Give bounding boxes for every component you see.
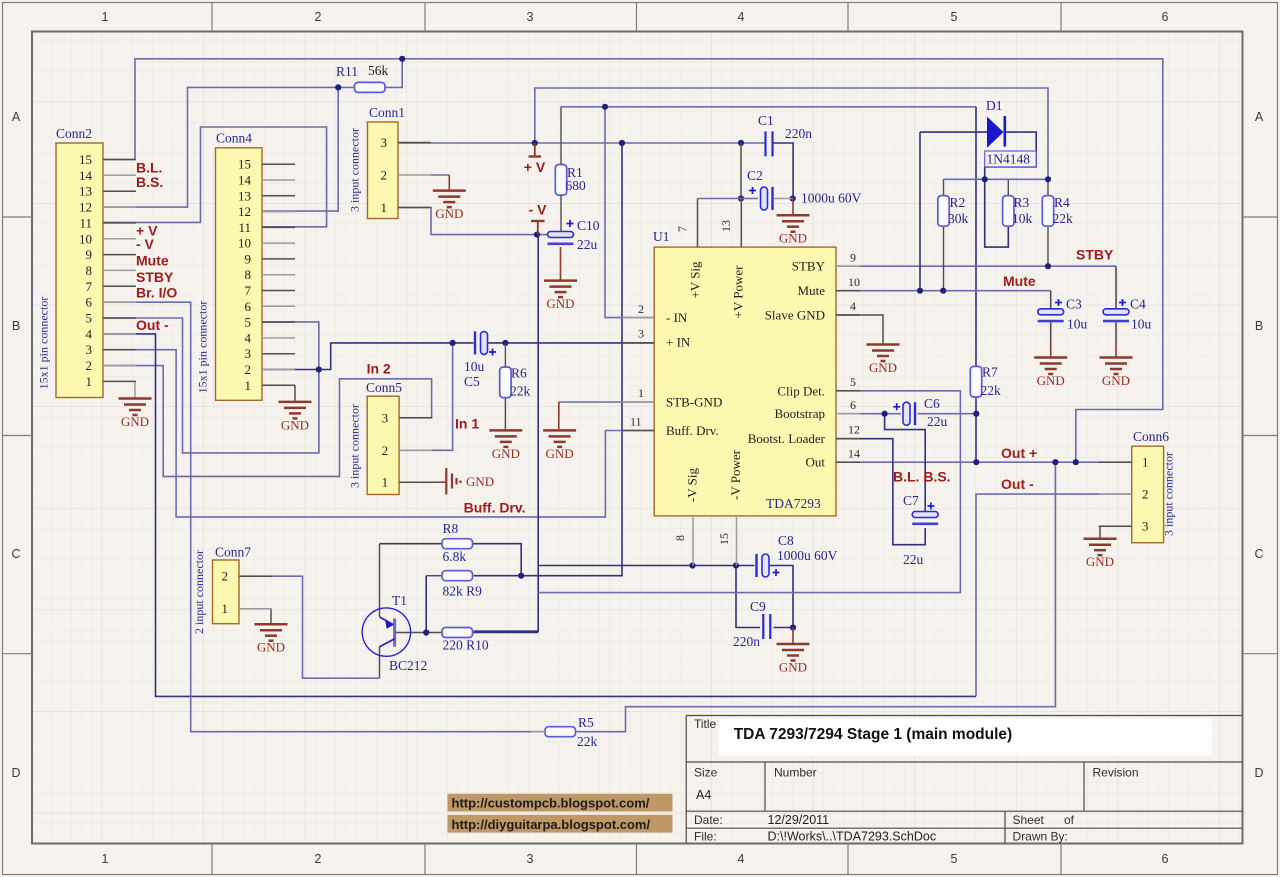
junction D1 anode Mute: [917, 288, 923, 294]
wire Conn1.1 to -V port: [398, 208, 548, 235]
svg-text:Conn6: Conn6: [1133, 429, 1169, 444]
svg-text:C10: C10: [577, 218, 600, 233]
resistor R10: [442, 628, 473, 638]
connector Conn4: [196, 131, 296, 401]
svg-text:3: 3: [86, 342, 93, 357]
svg-text:14: 14: [848, 447, 860, 461]
svg-text:Conn5: Conn5: [366, 380, 402, 395]
svg-text:680: 680: [566, 178, 587, 193]
wire C2 right: [774, 198, 793, 200]
svg-text:3: 3: [1142, 519, 1149, 534]
svg-text:Size: Size: [694, 766, 718, 780]
wire Bootstrap to C7 top: [885, 414, 926, 512]
pin R1 top: [560, 107, 562, 165]
svg-text:TDA7293: TDA7293: [766, 496, 821, 511]
wire to D1 anode: [920, 131, 987, 133]
ground Slave GND: [867, 345, 900, 362]
op-amp U1 TDA7293: [653, 229, 836, 516]
capacitor C1: [766, 131, 773, 156]
capacitor C8: [757, 554, 770, 577]
svg-text:3 input connector: 3 input connector: [348, 128, 362, 212]
svg-text:R3: R3: [1014, 195, 1030, 210]
pin R1 bottom: [560, 195, 562, 231]
connector Conn6: [1099, 429, 1176, 543]
svg-text:GND: GND: [779, 231, 807, 246]
svg-text:R4: R4: [1054, 195, 1070, 210]
svg-text:-V Power: -V Power: [728, 449, 743, 500]
svg-text:C5: C5: [464, 374, 480, 389]
svg-text:C4: C4: [1130, 297, 1146, 312]
svg-text:Conn2: Conn2: [56, 126, 92, 141]
svg-text:6: 6: [86, 295, 93, 310]
svg-text:GND: GND: [121, 414, 149, 429]
svg-text:2: 2: [638, 302, 644, 316]
svg-text:R7: R7: [982, 365, 998, 380]
svg-text:BC212: BC212: [389, 658, 427, 673]
wire to R8 left: [380, 543, 443, 545]
pin U1.11: [622, 430, 654, 432]
svg-text:1000u 60V: 1000u 60V: [801, 191, 862, 206]
svg-text:13: 13: [719, 220, 733, 232]
pin R6 top: [504, 343, 506, 367]
svg-text:2: 2: [315, 10, 322, 24]
svg-text:3: 3: [527, 852, 534, 866]
svg-text:2: 2: [381, 168, 388, 183]
svg-text:3 input connector: 3 input connector: [1162, 452, 1176, 536]
svg-text:R2: R2: [950, 195, 966, 210]
pin U1.6: [836, 413, 860, 415]
svg-text:GND: GND: [1037, 373, 1065, 388]
svg-text:12: 12: [848, 423, 860, 437]
svg-text:A: A: [1255, 110, 1264, 124]
junction R11 left: [335, 84, 341, 90]
svg-text:5: 5: [245, 315, 252, 330]
wire Conn4.2 riser: [318, 370, 320, 453]
wire Conn1.2 to ground: [448, 175, 450, 190]
resistor R3: [1003, 196, 1014, 227]
svg-text:C2: C2: [747, 168, 763, 183]
svg-text:R11: R11: [336, 64, 358, 79]
ground Conn6: [1084, 539, 1117, 556]
svg-text:STBY: STBY: [792, 259, 826, 274]
junction R4 bottom STBY: [1045, 263, 1051, 269]
junction C6 left: [882, 411, 888, 417]
wire C10 to ground: [560, 247, 562, 280]
wire Conn1.2 extension: [431, 174, 449, 176]
svg-text:of: of: [1064, 813, 1075, 827]
wire Conn2.6 to R5: [103, 302, 545, 732]
svg-text:1: 1: [222, 601, 229, 616]
svg-text:U1: U1: [653, 229, 670, 244]
svg-text:3: 3: [245, 346, 252, 361]
pin R7 top: [975, 366, 977, 396]
svg-text:C: C: [11, 547, 20, 561]
svg-text:Number: Number: [774, 766, 817, 780]
svg-text:1000u 60V: 1000u 60V: [777, 548, 838, 563]
pin R4 bottom: [1047, 227, 1049, 267]
junction R8-R9: [518, 573, 524, 579]
svg-text:15: 15: [238, 157, 251, 172]
url labels: [448, 794, 673, 833]
wire C2 to ground: [792, 199, 794, 215]
svg-text:Out +: Out +: [1001, 445, 1037, 461]
junction R5 riser Out+: [1052, 459, 1058, 465]
svg-text:Conn1: Conn1: [369, 105, 405, 120]
svg-text:6: 6: [245, 299, 252, 314]
svg-text:GND: GND: [492, 446, 520, 461]
svg-text:12: 12: [238, 204, 251, 219]
pin U1.7: [697, 199, 699, 248]
svg-text:22k: 22k: [981, 383, 1002, 398]
svg-text:1: 1: [245, 378, 252, 393]
resistor R2: [938, 196, 949, 227]
svg-text:7: 7: [245, 283, 252, 298]
svg-text:B: B: [1255, 319, 1263, 333]
wire C4 to ground: [1115, 345, 1117, 357]
svg-text:GND: GND: [1086, 554, 1114, 569]
wire R9 left: [426, 575, 442, 577]
wire R9 to base: [425, 576, 427, 633]
svg-text:2: 2: [382, 443, 389, 458]
svg-text:Mute: Mute: [798, 283, 826, 298]
wire Clip Det. bus: [538, 391, 960, 593]
svg-text:14: 14: [238, 173, 252, 188]
svg-text:B: B: [12, 319, 20, 333]
wire riser to R7: [975, 107, 977, 367]
svg-text:Slave GND: Slave GND: [765, 308, 825, 323]
wire Out- to Conn6.2: [976, 494, 1132, 696]
svg-text:10u: 10u: [1131, 317, 1152, 332]
pin C4 bottom: [1115, 323, 1117, 346]
junction B.L. Out+: [1073, 459, 1079, 465]
wire C9 right: [774, 627, 794, 629]
svg-text:GND: GND: [546, 446, 574, 461]
svg-text:C: C: [1254, 547, 1263, 561]
svg-text:C9: C9: [750, 599, 766, 614]
wire T1 collector down: [379, 647, 381, 679]
svg-text:11: 11: [238, 220, 251, 235]
wire In 2 Conn2.2 to Conn5.3: [103, 366, 432, 477]
svg-text:GND: GND: [281, 417, 309, 432]
wire T1 base to R10: [396, 632, 442, 634]
svg-text:12/29/2011: 12/29/2011: [768, 813, 830, 827]
svg-text:1N4148: 1N4148: [987, 152, 1031, 167]
resistor R9: [442, 571, 473, 581]
wire R2-R4 top: [944, 178, 1049, 180]
svg-text:GND: GND: [869, 360, 897, 375]
pin U1.1: [622, 401, 654, 403]
wire C9 to ground: [792, 628, 794, 644]
svg-text:220n: 220n: [733, 634, 760, 649]
wire R8 right: [473, 544, 522, 576]
wire Conn2.1 to ground: [134, 381, 136, 397]
capacitor C10: [548, 232, 574, 244]
wire C8 to C9 junction: [769, 566, 794, 628]
wire D1 anode riser: [919, 132, 921, 291]
svg-text:Clip Det.: Clip Det.: [777, 383, 825, 398]
junction U1.13: [738, 195, 744, 201]
svg-text:B.L. B.S.: B.L. B.S.: [893, 469, 951, 485]
wire -IN to U1.2: [605, 107, 654, 318]
ground Conn1: [433, 191, 466, 208]
wire STBY to C4: [1115, 266, 1117, 309]
svg-text:15: 15: [79, 152, 92, 167]
wire R6 to ground: [504, 398, 506, 430]
svg-text:+ IN: + IN: [666, 334, 691, 349]
svg-text:56k: 56k: [368, 63, 389, 78]
svg-text:R5: R5: [578, 715, 594, 730]
ground C1 C2: [777, 215, 810, 232]
pin R2 bottom: [943, 227, 945, 291]
svg-text:- V: - V: [136, 236, 155, 252]
transistor T1 BC212: [362, 593, 427, 673]
svg-text:5: 5: [951, 10, 958, 24]
wire to R3 bottom: [985, 179, 1009, 247]
svg-text:220 R10: 220 R10: [443, 638, 489, 653]
svg-text:Mute: Mute: [136, 253, 169, 269]
svg-text:4: 4: [245, 330, 252, 345]
svg-text:GND: GND: [779, 660, 807, 675]
svg-text:Sheet: Sheet: [1013, 813, 1045, 827]
junction C5 left: [450, 340, 456, 346]
pin U1.12: [836, 438, 860, 440]
junction R6 top: [502, 340, 508, 346]
svg-text:10u: 10u: [1067, 317, 1088, 332]
svg-text:D1: D1: [986, 98, 1003, 113]
junction D1 loop: [982, 176, 988, 182]
wire R10 right: [473, 632, 539, 634]
wire U1.7 to C2: [698, 198, 759, 200]
pin U1.10: [836, 290, 860, 292]
svg-text:Br. I/O: Br. I/O: [136, 285, 177, 301]
svg-text:14: 14: [79, 168, 93, 183]
wire B.L. net Conn2.15 to Out+: [103, 59, 1163, 462]
svg-text:2 input connector: 2 input connector: [192, 550, 206, 634]
net labels: [136, 160, 1114, 516]
svg-text:1: 1: [381, 200, 388, 215]
junction +V: [532, 140, 538, 146]
svg-text:3: 3: [382, 410, 389, 425]
junction C2 right: [790, 195, 796, 201]
svg-text:1: 1: [638, 386, 644, 400]
svg-text:11: 11: [630, 415, 642, 429]
resistor R6: [500, 367, 511, 398]
svg-text:D: D: [1254, 766, 1263, 780]
svg-text:-V Sig: -V Sig: [685, 467, 700, 502]
svg-text:C1: C1: [758, 113, 774, 128]
svg-text:D: D: [11, 766, 20, 780]
junction -V port: [534, 232, 540, 238]
ground C3: [1034, 358, 1067, 375]
connector Conn1: [348, 105, 432, 219]
power port -V: [529, 202, 548, 235]
svg-text:2: 2: [1142, 487, 1149, 502]
wire +V riser to R4: [535, 88, 1048, 179]
resistor R8: [442, 539, 473, 549]
svg-text:9: 9: [86, 247, 93, 262]
svg-text:Bootstrap: Bootstrap: [774, 406, 825, 421]
junction C1 left: [738, 140, 744, 146]
junction C9 GND: [790, 624, 796, 630]
svg-text:A: A: [12, 110, 21, 124]
svg-text:6: 6: [1162, 852, 1169, 866]
pin U1.5: [836, 390, 860, 392]
svg-text:11: 11: [79, 215, 92, 230]
svg-text:TDA 7293/7294 Stage 1 (main mo: TDA 7293/7294 Stage 1 (main module): [734, 726, 1013, 743]
svg-text:GND: GND: [546, 296, 574, 311]
pin U1.8: [692, 516, 694, 566]
wire R11 to Conn4.12: [262, 87, 338, 211]
wire Mute to C3: [1050, 291, 1052, 309]
svg-text:Bootst. Loader: Bootst. Loader: [748, 431, 826, 446]
svg-text:+V Sig: +V Sig: [688, 261, 703, 299]
wire C1-C2 link: [740, 143, 742, 199]
wire T1 emitter riser: [379, 544, 381, 617]
capacitor C6: [903, 402, 915, 425]
wire U1.1 STB-GND: [559, 401, 654, 403]
resistor R7: [970, 366, 981, 397]
wire Conn4.1 to ground: [294, 385, 296, 401]
capacitor C2: [761, 187, 773, 210]
svg-text:1: 1: [102, 852, 109, 866]
junction U1.15 -V: [733, 562, 739, 568]
wire STB-GND stub: [558, 402, 560, 429]
pin U1.3: [622, 342, 654, 344]
pin R3 top: [1007, 180, 1009, 196]
junction Conn4.2 Out-: [316, 366, 322, 372]
junction feedback: [619, 140, 625, 146]
svg-text:6: 6: [1162, 10, 1169, 24]
pin U1.2: [622, 317, 654, 319]
svg-text:+V Power: +V Power: [731, 265, 746, 319]
svg-text:10: 10: [79, 231, 92, 246]
svg-text:File:: File:: [694, 830, 717, 844]
junction -IN: [602, 104, 608, 110]
svg-text:3 input connector: 3 input connector: [348, 404, 362, 488]
pin R5 left: [531, 731, 545, 733]
svg-text:9: 9: [850, 251, 856, 265]
svg-text:GND: GND: [466, 474, 494, 489]
svg-text:30k: 30k: [948, 211, 969, 226]
wire In 1 to Conn5.2: [399, 343, 453, 450]
wire R5 to Out+ riser: [576, 462, 1055, 732]
diode D1 1N4148: [985, 98, 1036, 167]
wire Slave GND U1.4: [836, 315, 883, 344]
pin C3 bottom: [1050, 323, 1052, 346]
wire feedback to R9: [474, 143, 622, 576]
svg-text:C3: C3: [1066, 297, 1082, 312]
ground Conn7: [255, 624, 288, 641]
capacitor C3: [1038, 309, 1064, 321]
svg-text:4: 4: [86, 326, 93, 341]
junction R4 top: [1045, 176, 1051, 182]
svg-text:R8: R8: [443, 521, 459, 536]
svg-text:5: 5: [850, 375, 856, 389]
ground Conn4: [279, 402, 312, 419]
wire R1 top feedback horizontal: [561, 106, 976, 108]
wire Conn4.2 to C5: [262, 343, 474, 370]
svg-text:4: 4: [738, 10, 745, 24]
wire STBY U1.9: [836, 265, 1116, 267]
svg-text:R6: R6: [511, 366, 527, 381]
svg-text:In 2: In 2: [367, 361, 391, 377]
svg-text:3: 3: [381, 135, 388, 150]
svg-text:1: 1: [1142, 455, 1149, 470]
pin U1.15: [736, 516, 738, 566]
svg-text:- IN: - IN: [666, 310, 688, 325]
svg-text:+ V: + V: [524, 159, 546, 175]
svg-text:In 1: In 1: [455, 416, 479, 432]
ground C4: [1100, 358, 1133, 375]
pin numbers U1: [630, 220, 860, 545]
svg-text:3: 3: [527, 10, 534, 24]
svg-text:Buff. Drv.: Buff. Drv.: [666, 423, 719, 438]
svg-text:8: 8: [86, 263, 93, 278]
wire R7 bottom to Out+: [975, 397, 977, 463]
ground R6: [489, 430, 522, 447]
svg-text:82k R9: 82k R9: [443, 584, 483, 599]
svg-text:Mute: Mute: [1003, 273, 1036, 289]
wire -V rail to C8: [538, 565, 754, 567]
capacitor C4: [1103, 309, 1129, 321]
svg-text:A4: A4: [696, 788, 711, 802]
svg-text:7: 7: [675, 226, 689, 232]
wire T1 collector to Conn7.2: [239, 576, 380, 678]
svg-text:http://diyguitarpa.blogspot.co: http://diyguitarpa.blogspot.com/: [452, 817, 651, 832]
capacitor C5: [475, 331, 488, 354]
svg-text:10u: 10u: [464, 359, 485, 374]
wire Conn2.12 to R11: [103, 87, 355, 207]
resistor R5: [545, 727, 576, 737]
wire Out- Conn2.4 run: [103, 334, 976, 697]
svg-text:C8: C8: [778, 533, 794, 548]
junction R7 Out+: [973, 459, 979, 465]
wire U1.12 to C7 bottom: [836, 439, 925, 545]
svg-text:1: 1: [102, 10, 109, 24]
svg-text:http://custompcb.blogspot.com/: http://custompcb.blogspot.com/: [452, 796, 650, 811]
svg-text:3: 3: [638, 327, 644, 341]
svg-text:Date:: Date:: [694, 813, 723, 827]
wire C1 right loop: [773, 143, 794, 199]
svg-text:15: 15: [717, 533, 731, 545]
svg-text:10: 10: [238, 236, 251, 251]
svg-text:GND: GND: [1102, 373, 1130, 388]
junction R7 bootstrap: [973, 411, 979, 417]
pin R2 top: [943, 179, 945, 195]
connector Conn5: [348, 380, 433, 495]
wire Bootstrap U1.6 to C6: [836, 413, 901, 415]
capacitor C9: [763, 614, 770, 639]
svg-text:15x1 pin connector: 15x1 pin connector: [37, 297, 51, 390]
junction U1.8 -V: [689, 562, 695, 568]
junction R9-R10: [423, 629, 429, 635]
wire Out- Conn2.5 to Conn4.5: [103, 318, 319, 453]
svg-text:Conn7: Conn7: [215, 545, 251, 560]
pin U1.9: [836, 265, 860, 267]
power port +V: [524, 143, 546, 175]
svg-text:- V: - V: [529, 202, 548, 218]
svg-text:7: 7: [86, 279, 93, 294]
title block: [719, 719, 1212, 756]
svg-text:Buff. Drv.: Buff. Drv.: [464, 500, 526, 516]
svg-text:22u: 22u: [577, 237, 598, 252]
svg-text:GND: GND: [435, 206, 463, 221]
svg-text:15x1 pin connector: 15x1 pin connector: [196, 301, 210, 394]
wire Conn7.1 to ground: [239, 609, 271, 624]
svg-text:Conn4: Conn4: [216, 131, 252, 146]
junction R11 right: [399, 56, 405, 62]
connector Conn7: [192, 545, 272, 634]
